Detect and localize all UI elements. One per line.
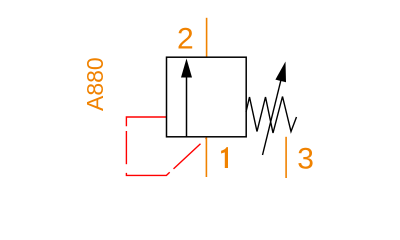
svg-text:3: 3 [297,142,314,175]
svg-text:A880: A880 [82,57,108,111]
svg-text:2: 2 [177,23,194,56]
